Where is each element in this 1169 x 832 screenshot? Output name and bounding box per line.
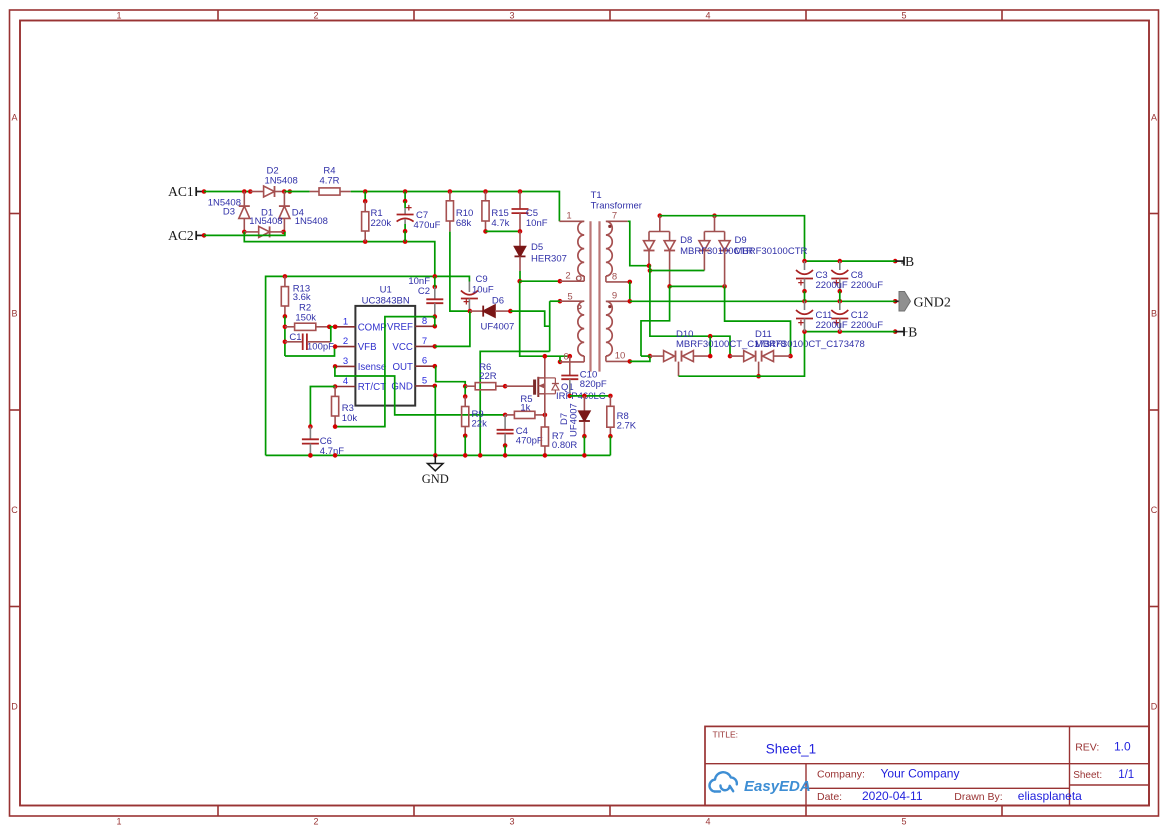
svg-text:Company:: Company: bbox=[817, 769, 865, 781]
svg-text:2200uF: 2200uF bbox=[851, 320, 883, 331]
svg-text:9: 9 bbox=[612, 291, 617, 302]
svg-text:4: 4 bbox=[343, 376, 348, 387]
svg-text:22R: 22R bbox=[479, 371, 497, 382]
svg-text:2200uF: 2200uF bbox=[816, 320, 848, 331]
svg-text:68k: 68k bbox=[456, 218, 472, 229]
svg-text:VREF: VREF bbox=[387, 322, 413, 333]
svg-text:5: 5 bbox=[422, 375, 427, 386]
svg-text:220k: 220k bbox=[371, 218, 392, 229]
svg-text:820pF: 820pF bbox=[580, 379, 607, 390]
svg-text:2: 2 bbox=[343, 336, 348, 347]
svg-text:10uF: 10uF bbox=[472, 285, 494, 296]
svg-text:2: 2 bbox=[565, 271, 570, 282]
svg-text:7: 7 bbox=[422, 336, 427, 347]
svg-text:VFB: VFB bbox=[358, 342, 377, 353]
svg-text:10nF: 10nF bbox=[526, 218, 548, 229]
svg-text:1N5408: 1N5408 bbox=[265, 175, 298, 186]
svg-text:-B: -B bbox=[901, 254, 915, 269]
svg-text:D: D bbox=[1151, 702, 1158, 712]
svg-text:6: 6 bbox=[422, 356, 427, 367]
svg-text:3: 3 bbox=[509, 10, 514, 20]
svg-text:2: 2 bbox=[313, 10, 318, 20]
svg-text:AC2: AC2 bbox=[168, 228, 194, 243]
svg-text:Isense: Isense bbox=[358, 362, 387, 373]
svg-text:D3: D3 bbox=[223, 207, 235, 218]
svg-text:1/1: 1/1 bbox=[1118, 769, 1134, 781]
svg-text:D9: D9 bbox=[735, 235, 747, 246]
svg-text:1: 1 bbox=[566, 211, 571, 222]
svg-text:100pF: 100pF bbox=[307, 342, 334, 353]
svg-text:3.6k: 3.6k bbox=[293, 292, 311, 303]
svg-text:C1: C1 bbox=[289, 332, 301, 343]
svg-text:1: 1 bbox=[116, 816, 121, 826]
svg-text:150k: 150k bbox=[295, 312, 316, 323]
svg-text:UF4007: UF4007 bbox=[569, 403, 580, 437]
svg-text:1N5408: 1N5408 bbox=[295, 216, 328, 227]
svg-text:A: A bbox=[1151, 113, 1157, 123]
svg-text:22k: 22k bbox=[472, 419, 488, 430]
svg-text:TITLE:: TITLE: bbox=[713, 730, 739, 740]
svg-text:A: A bbox=[11, 113, 17, 123]
svg-text:+: + bbox=[406, 203, 412, 215]
svg-text:5: 5 bbox=[567, 291, 572, 302]
svg-text:C: C bbox=[11, 505, 18, 515]
svg-text:REV:: REV: bbox=[1075, 742, 1099, 754]
svg-text:5: 5 bbox=[901, 10, 906, 20]
svg-text:D8: D8 bbox=[680, 235, 692, 246]
svg-text:COMP: COMP bbox=[358, 322, 387, 333]
svg-text:5: 5 bbox=[901, 816, 906, 826]
svg-text:4.7R: 4.7R bbox=[319, 175, 339, 186]
svg-text:4: 4 bbox=[705, 816, 710, 826]
svg-text:RT/CT: RT/CT bbox=[358, 382, 386, 393]
svg-text:D5: D5 bbox=[531, 242, 543, 253]
svg-text:6: 6 bbox=[563, 352, 568, 363]
svg-text:1: 1 bbox=[116, 10, 121, 20]
svg-text:eliasplaneta: eliasplaneta bbox=[1018, 789, 1082, 803]
svg-text:Sheet_1: Sheet_1 bbox=[766, 742, 816, 757]
svg-text:0.80R: 0.80R bbox=[552, 440, 577, 451]
svg-text:1.0: 1.0 bbox=[1114, 740, 1131, 754]
svg-text:UC3843BN: UC3843BN bbox=[362, 295, 410, 306]
svg-text:+B: +B bbox=[901, 324, 918, 339]
svg-text:AC1: AC1 bbox=[168, 184, 194, 199]
svg-text:1: 1 bbox=[343, 316, 348, 327]
svg-text:4.7k: 4.7k bbox=[491, 218, 509, 229]
svg-text:3: 3 bbox=[343, 356, 348, 367]
svg-text:7: 7 bbox=[612, 211, 617, 222]
svg-text:B: B bbox=[11, 309, 17, 319]
svg-text:Drawn By:: Drawn By: bbox=[954, 791, 1002, 803]
svg-text:1N5408: 1N5408 bbox=[249, 216, 282, 227]
svg-text:C2: C2 bbox=[418, 286, 430, 297]
svg-text:GND: GND bbox=[422, 472, 449, 486]
svg-text:D: D bbox=[11, 702, 18, 712]
svg-text:4: 4 bbox=[705, 10, 710, 20]
svg-text:+: + bbox=[798, 278, 804, 290]
svg-text:HER307: HER307 bbox=[531, 254, 567, 265]
svg-text:GND2: GND2 bbox=[914, 295, 951, 310]
svg-text:10: 10 bbox=[615, 351, 626, 362]
svg-text:C: C bbox=[1151, 505, 1158, 515]
svg-text:OUT: OUT bbox=[392, 362, 413, 373]
svg-text:MBRF30100CT_C173478: MBRF30100CT_C173478 bbox=[755, 339, 865, 350]
svg-text:3: 3 bbox=[509, 816, 514, 826]
svg-text:Date:: Date: bbox=[817, 791, 842, 803]
svg-text:2: 2 bbox=[313, 816, 318, 826]
svg-text:2020-04-11: 2020-04-11 bbox=[862, 789, 923, 803]
svg-text:EasyEDA: EasyEDA bbox=[744, 778, 811, 795]
svg-text:C9: C9 bbox=[476, 274, 488, 285]
svg-text:8: 8 bbox=[612, 272, 617, 283]
svg-text:MBRF30100CTR: MBRF30100CTR bbox=[735, 246, 808, 257]
svg-text:Your Company: Your Company bbox=[881, 767, 960, 781]
svg-text:UF4007: UF4007 bbox=[481, 322, 515, 333]
svg-text:1k: 1k bbox=[520, 403, 530, 414]
svg-text:VCC: VCC bbox=[392, 342, 412, 353]
svg-text:2.7K: 2.7K bbox=[617, 421, 637, 432]
svg-text:B: B bbox=[1151, 309, 1157, 319]
svg-text:Sheet:: Sheet: bbox=[1073, 770, 1102, 781]
svg-text:470uF: 470uF bbox=[414, 220, 441, 231]
svg-text:2200uF: 2200uF bbox=[816, 280, 848, 291]
svg-text:D6: D6 bbox=[492, 296, 504, 307]
svg-text:+: + bbox=[798, 318, 804, 330]
svg-text:10k: 10k bbox=[342, 413, 358, 424]
svg-text:2200uF: 2200uF bbox=[851, 280, 883, 291]
svg-text:U1: U1 bbox=[380, 285, 392, 296]
svg-text:470pF: 470pF bbox=[516, 436, 543, 447]
